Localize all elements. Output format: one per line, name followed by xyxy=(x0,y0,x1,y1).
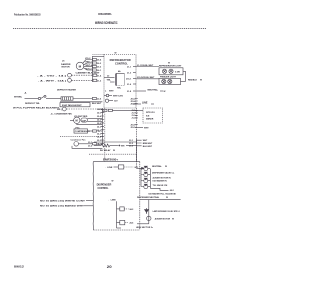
svg-text:DISPENSER NEUTRAL: DISPENSER NEUTRAL xyxy=(137,196,160,199)
icemaker dashed box xyxy=(143,108,163,123)
svg-text:20: 20 xyxy=(107,265,112,269)
svg-text:ICE MAKER IN: ICE MAKER IN xyxy=(153,179,168,182)
svg-text:ICE: ICE xyxy=(146,115,150,117)
svg-text:J6-3: J6-3 xyxy=(97,63,102,65)
svg-text:EVAP FAN BLK/WHT: EVAP FAN BLK/WHT xyxy=(62,104,82,107)
svg-text:AUGER MOTOR: AUGER MOTOR xyxy=(155,217,171,220)
svg-text:DEFROST TML: DEFROST TML xyxy=(25,103,41,105)
condenser fan motor M2 xyxy=(74,117,80,123)
cap wires xyxy=(87,118,102,120)
svg-text:CAP: CAP xyxy=(82,119,87,122)
svg-text:J4-5: J4-5 xyxy=(129,221,134,224)
svg-text:J15-1: J15-1 xyxy=(126,78,132,80)
auger motor circle xyxy=(147,216,151,220)
svg-text:LINE: LINE xyxy=(142,102,148,105)
svg-text:W: W xyxy=(165,166,167,168)
svg-text:WHT 120V: WHT 120V xyxy=(113,95,124,97)
svg-text:W: W xyxy=(172,218,174,220)
control box right pins xyxy=(133,66,136,68)
spine rungs xyxy=(101,109,104,143)
svg-text:WHT-4: WHT-4 xyxy=(86,64,93,67)
svg-text:RED/BLK: RED/BLK xyxy=(188,80,197,82)
cabinet divider rail xyxy=(135,108,137,168)
svg-text:J1-1: J1-1 xyxy=(127,66,132,68)
refrigerator light box xyxy=(159,68,183,75)
svg-text:WIRING SCHEMATIC: WIRING SCHEMATIC xyxy=(95,21,118,25)
refrigerator control box xyxy=(104,55,136,109)
run capacitor xyxy=(81,118,87,122)
svg-text:J1-4: J1-4 xyxy=(97,74,102,77)
svg-text:WHT/BL: WHT/BL xyxy=(14,97,23,99)
svg-text:CRSH265RBA: CRSH265RBA xyxy=(98,12,112,16)
svg-text:CONTROL: CONTROL xyxy=(115,61,128,65)
header dashed rule xyxy=(13,27,206,29)
svg-text:W: W xyxy=(166,197,168,199)
evap fan box xyxy=(60,101,102,103)
svg-text:MAKER: MAKER xyxy=(146,118,154,121)
pins under control box xyxy=(103,109,107,111)
svg-text:J4-3: J4-3 xyxy=(129,208,134,211)
wire damper pin3 xyxy=(84,66,93,68)
jog wire to J4 xyxy=(150,188,168,190)
svg-text:J6-4: J6-4 xyxy=(97,58,102,61)
damper motor M1 xyxy=(76,62,84,70)
svg-text:W: W xyxy=(113,150,115,152)
svg-text:RED-1: RED-1 xyxy=(86,61,93,63)
svg-text:DISPENSER VALVE CL: DISPENSER VALVE CL xyxy=(152,171,175,174)
svg-text:8/6/12: 8/6/12 xyxy=(14,265,24,269)
svg-text:J4-2: J4-2 xyxy=(170,189,175,192)
connector spine xyxy=(101,108,103,145)
svg-text:W: W xyxy=(164,91,166,93)
wire freezer light to bus xyxy=(181,81,186,83)
dispenser control box xyxy=(93,161,140,163)
svg-text:Condenser Fan: Condenser Fan xyxy=(71,138,87,141)
wire damper pin2 xyxy=(84,63,93,65)
svg-text:3.6W: 3.6W xyxy=(175,71,180,73)
svg-text:CABINET BLK-WHT: CABINET BLK-WHT xyxy=(76,71,101,74)
svg-text:DEFROST HEATER: DEFROST HEATER xyxy=(57,88,76,91)
svg-text:J1-2: J1-2 xyxy=(131,118,135,120)
water valve V4 xyxy=(144,185,148,189)
svg-text:NEUTRAL: NEUTRAL xyxy=(152,165,163,168)
svg-text:WD (: WD ( xyxy=(57,109,62,111)
svg-text:J1-6: J1-6 xyxy=(127,84,132,86)
svg-text:-A-: -A- xyxy=(24,91,27,94)
svg-text:12V: 12V xyxy=(114,101,118,103)
svg-text:L: L xyxy=(105,91,107,93)
control box top extension xyxy=(92,54,104,56)
svg-text:INV RELAY: INV RELAY xyxy=(100,149,111,152)
water valve V2 dispenser xyxy=(144,173,148,177)
svg-text:WH: WH xyxy=(121,145,125,147)
svg-text:J3-4: J3-4 xyxy=(97,136,102,139)
svg-text:J2-6: J2-6 xyxy=(97,98,102,100)
svg-text:ICE MAKER FILL SOLENOID: ICE MAKER FILL SOLENOID xyxy=(148,192,176,195)
svg-text:MOTOR: MOTOR xyxy=(62,67,71,69)
machine compartment divider xyxy=(60,135,102,137)
svg-text:J1-3: J1-3 xyxy=(127,73,132,75)
compressor box xyxy=(74,129,88,133)
svg-text:BLK-WHT: BLK-WHT xyxy=(143,146,153,148)
svg-text:J15-6: J15-6 xyxy=(130,103,135,105)
valve ladder right rail xyxy=(149,169,151,189)
svg-text:COMPRESSOR: COMPRESSOR xyxy=(75,131,90,133)
divider above EMF xyxy=(89,153,137,155)
wire damper pin1 xyxy=(83,60,93,64)
svg-text:BLK-3: BLK-3 xyxy=(86,68,93,70)
svg-text:REFRIGERATOR: REFRIGERATOR xyxy=(110,58,131,62)
svg-text:NO 10 AWG (15) BAKED WHT: NO 10 AWG (15) BAKED WHT xyxy=(40,205,85,208)
wire light to right bus xyxy=(183,70,186,72)
svg-text:EMF2000+: EMF2000+ xyxy=(103,158,119,162)
svg-text:J3-2: J3-2 xyxy=(129,143,134,145)
svg-text:J3-3: J3-3 xyxy=(129,146,134,148)
svg-text:WHT: WHT xyxy=(109,91,114,93)
svg-text:J2-4: J2-4 xyxy=(97,115,102,118)
water valve V1 neutral xyxy=(144,167,148,171)
svg-text:J3-2: J3-2 xyxy=(88,145,93,147)
svg-text:W: W xyxy=(168,62,170,64)
svg-text:J6-2: J6-2 xyxy=(97,66,102,68)
svg-text:4A: 4A xyxy=(118,70,121,73)
svg-text:- A - VIO - 14 (: - A - VIO - 14 ( xyxy=(37,75,67,78)
dispenser lamp triangle xyxy=(145,210,149,213)
svg-text:BLK WHT: BLK WHT xyxy=(92,103,102,105)
svg-text:NO 10 AWG (15) WHITE CONT: NO 10 AWG (15) WHITE CONT xyxy=(40,199,86,202)
svg-text:WHT: WHT xyxy=(143,140,148,142)
svg-text:Publication No. 5995539533: Publication No. 5995539533 xyxy=(14,13,41,17)
svg-text:J6: J6 xyxy=(62,61,65,63)
wire neutral feed with arrow xyxy=(136,167,143,169)
bottom left wire xyxy=(72,146,102,148)
svg-text:M: M xyxy=(79,64,82,68)
svg-text:DAMPER: DAMPER xyxy=(61,63,71,66)
wire damper pin4 xyxy=(84,68,93,70)
svg-text:J1-2: J1-2 xyxy=(97,80,102,82)
svg-text:WTR VLV: WTR VLV xyxy=(146,112,156,114)
svg-text:BRN-WHT: BRN-WHT xyxy=(143,143,153,145)
svg-text:← LINE: ← LINE xyxy=(105,167,113,169)
svg-text:VIO-2: VIO-2 xyxy=(85,58,91,60)
svg-text:J1-8: J1-8 xyxy=(127,91,132,93)
svg-text:HIGH SECTOR 2+: HIGH SECTOR 2+ xyxy=(136,227,154,229)
bottom wire xyxy=(137,223,149,225)
svg-text:NEUTRAL: NEUTRAL xyxy=(148,89,159,92)
svg-text:REFRIGERATOR LIGHT: REFRIGERATOR LIGHT xyxy=(159,64,182,67)
water valve V3 auger xyxy=(144,179,148,183)
svg-text:W: W xyxy=(200,80,202,82)
svg-text:TVL VALVE CM: TVL VALVE CM xyxy=(153,184,168,187)
svg-text:TML: TML xyxy=(117,88,122,90)
svg-text:AUGER MOTOR IN: AUGER MOTOR IN xyxy=(153,177,172,180)
valve ladder left rail xyxy=(140,168,142,186)
svg-text:LAMP DISPENSER 120 VAC MTR L2: LAMP DISPENSER 120 VAC MTR L2 xyxy=(153,210,181,213)
svg-text:W: W xyxy=(112,180,114,182)
inverter connector right xyxy=(136,139,138,162)
svg-text:W POL FLIPPER RELAY BLK/WHT: W POL FLIPPER RELAY BLK/WHT xyxy=(13,106,60,109)
svg-text:← LINE: ← LINE xyxy=(108,200,116,202)
control inner block xyxy=(115,74,117,86)
svg-text:WHT: WHT xyxy=(144,127,149,129)
defrost heater element xyxy=(61,97,73,100)
defrost thermostat xyxy=(38,97,40,99)
svg-text:- A - CONDENSER FAN: - A - CONDENSER FAN xyxy=(50,113,72,116)
svg-text:CONTROL: CONTROL xyxy=(98,187,109,190)
condenser fan motor M3 xyxy=(74,142,79,147)
svg-text:TML: TML xyxy=(107,80,112,82)
connector J6 strip xyxy=(91,56,93,82)
motor bottom wire xyxy=(77,124,103,125)
freezer light box xyxy=(159,78,181,84)
svg-text:M: M xyxy=(76,119,78,123)
svg-text:- A - WHT - 13A (: - A - WHT - 13A ( xyxy=(38,80,66,83)
